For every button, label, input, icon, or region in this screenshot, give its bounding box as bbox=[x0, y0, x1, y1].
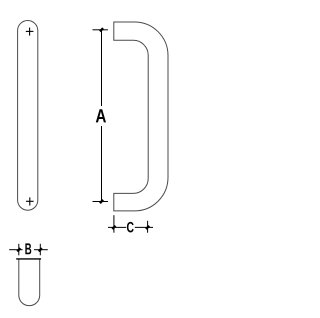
dimension A extension bottom bbox=[93, 201, 108, 203]
profile view top face line bbox=[16, 258, 41, 260]
dimension A line lower segment bbox=[101, 126, 103, 202]
screw cross bottom bbox=[26, 197, 34, 205]
handle side view outline bbox=[114, 22, 168, 211]
dimension B tick right bbox=[39, 248, 42, 251]
handle front view body bbox=[18, 21, 38, 211]
label A bbox=[96, 109, 106, 122]
dimension A tick top bbox=[100, 28, 103, 31]
label B bbox=[25, 243, 31, 254]
dimension A tick bottom bbox=[100, 200, 103, 203]
dimension B line bbox=[9, 244, 48, 256]
screw cross top bbox=[26, 28, 34, 36]
dimension C tick right bbox=[146, 226, 149, 229]
dimension A line upper segment bbox=[101, 30, 103, 106]
dimension C tick left bbox=[112, 226, 115, 229]
label C bbox=[127, 222, 134, 233]
dimension C line bbox=[108, 215, 153, 233]
dimension B tick left bbox=[17, 248, 20, 251]
dimension A extension top bbox=[93, 29, 108, 31]
profile view (U shape) bbox=[19, 259, 40, 305]
